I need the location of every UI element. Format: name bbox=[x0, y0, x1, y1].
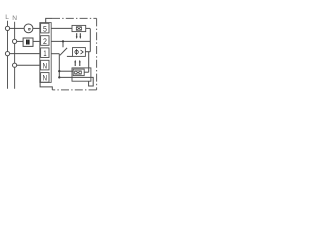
terminal 5 cell bbox=[41, 23, 49, 33]
wire N rail bbox=[14, 22, 16, 89]
wire junction C return bbox=[59, 77, 93, 86]
node junction B bbox=[58, 70, 60, 72]
wire N2 to terminal N bbox=[17, 64, 40, 66]
wire terminal 5 riser bbox=[46, 18, 52, 22]
svg-text:1: 1 bbox=[43, 49, 47, 58]
wire sensor R2 to riser bbox=[84, 71, 89, 73]
sensor R2 box bbox=[73, 69, 84, 76]
resistor R2 bbox=[75, 71, 82, 74]
clock M1 time switch bbox=[24, 24, 33, 33]
wire junction B to sensor R2 bbox=[59, 70, 73, 72]
wire sensor R1 to riser bbox=[86, 27, 90, 29]
node terminal circle N1 bbox=[13, 39, 17, 43]
wire terminal 1 feed bbox=[51, 53, 59, 55]
wire junction A drop bbox=[62, 41, 64, 47]
resistor R1 bbox=[76, 27, 81, 30]
sensor R2 enclosure bbox=[72, 68, 91, 81]
wire right riser lower bbox=[88, 52, 90, 72]
wire L2 to terminal 1 bbox=[10, 53, 40, 55]
terminal strip outer bbox=[40, 23, 51, 83]
switch S1 blade bbox=[60, 48, 67, 55]
thermostat U1 box bbox=[73, 48, 86, 57]
node terminal circle N2 bbox=[13, 63, 17, 67]
arrow down a2 bbox=[79, 33, 81, 37]
wire clock to terminal 5 bbox=[33, 27, 40, 29]
wire N1 to motor box bbox=[17, 40, 23, 42]
motor M2 box bbox=[23, 38, 33, 46]
node junction C bbox=[58, 76, 60, 78]
wire L rail bbox=[7, 21, 9, 89]
wire terminal 2 to riser bbox=[51, 40, 90, 42]
svg-text:N: N bbox=[12, 15, 17, 22]
wire thermostat to riser bbox=[85, 51, 90, 53]
wire L1 to clock bbox=[10, 27, 25, 29]
thermostat theta symbol bbox=[75, 50, 78, 53]
sensor R1 box bbox=[72, 25, 86, 31]
svg-text:5: 5 bbox=[43, 24, 47, 33]
terminal N upper cell bbox=[41, 60, 49, 70]
wire switch to thermostat bbox=[67, 55, 73, 57]
svg-text:N: N bbox=[43, 61, 48, 70]
wire terminal 5 to sensor R1 bbox=[51, 27, 72, 29]
wire motor box to terminal 2 bbox=[33, 40, 40, 42]
wire dash-dot link bottom bbox=[52, 89, 96, 91]
terminal N lower cell bbox=[41, 73, 49, 83]
node terminal circle L2 bbox=[5, 52, 9, 56]
arrow down a1 bbox=[76, 33, 78, 37]
wire dash-dot link top bbox=[52, 17, 97, 19]
wire common drop bbox=[58, 54, 60, 78]
node junction A bbox=[62, 40, 64, 42]
arrow up b1 bbox=[74, 62, 76, 66]
terminal 2 cell bbox=[41, 36, 49, 46]
node terminal circle L1 bbox=[5, 26, 9, 30]
svg-text:L: L bbox=[5, 14, 9, 21]
wire link stair to terminal N bbox=[40, 82, 52, 90]
wire dash-dot link right bbox=[96, 18, 98, 90]
svg-text:N: N bbox=[43, 74, 48, 83]
svg-text:2: 2 bbox=[43, 37, 47, 46]
arrow up b2 bbox=[79, 62, 81, 66]
terminal 1 cell bbox=[41, 48, 49, 58]
wire right riser upper bbox=[89, 28, 91, 51]
